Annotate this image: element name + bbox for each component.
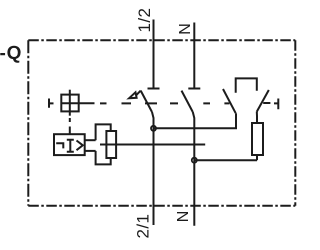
moving contact pole N: [182, 91, 193, 112]
wire phase tap to test contact: [154, 113, 237, 128]
wire release box to sensor lower: [85, 150, 96, 152]
wire phase top conductor: [153, 20, 155, 89]
junction node N: [192, 158, 197, 163]
test button bridge bracket: [236, 78, 257, 92]
linkage right anchor: [274, 99, 278, 110]
svg-text:2/1: 2/1: [134, 214, 153, 239]
fixed contact T-bar pole 1: [148, 88, 160, 90]
test resistor R: [252, 123, 263, 155]
svg-text:N: N: [175, 211, 192, 223]
release box symbol dash-hook: [56, 143, 63, 148]
svg-text:-Q: -Q: [0, 43, 22, 64]
wire release box to sensor upper: [85, 139, 96, 141]
actuator left anchor: [49, 99, 54, 108]
test contact left diagonal: [223, 89, 236, 113]
moving contact pole 1: [141, 91, 152, 112]
test contact right diagonal: [257, 90, 269, 112]
test button actuator (square with cross): [61, 90, 95, 116]
current sensor winding: [96, 124, 111, 164]
release arrow head (open triangle): [129, 92, 137, 98]
wire phase lower conductor: [152, 112, 154, 225]
dashed link button to release box: [69, 118, 71, 134]
overcurrent release box I>: [54, 134, 85, 155]
wire through sensor: [100, 144, 205, 146]
release box symbol I: [67, 140, 74, 152]
release arrow shaft: [136, 91, 141, 96]
wire resistor bottom lead: [256, 155, 258, 160]
mechanical linkage dashes: [100, 102, 270, 104]
svg-text:N: N: [177, 23, 194, 35]
enclosure dashed border: [28, 39, 295, 41]
release box symbol >: [77, 141, 83, 151]
current sensor core window: [106, 131, 116, 158]
junction node phase: [151, 126, 156, 131]
wire N lower conductor: [193, 112, 195, 226]
wire N top conductor: [193, 23, 195, 89]
wire test contact to resistor: [256, 112, 258, 123]
svg-text:1/2: 1/2: [135, 8, 154, 33]
wire N tap to resistor: [194, 159, 257, 161]
fixed contact T-bar pole N: [188, 88, 200, 90]
